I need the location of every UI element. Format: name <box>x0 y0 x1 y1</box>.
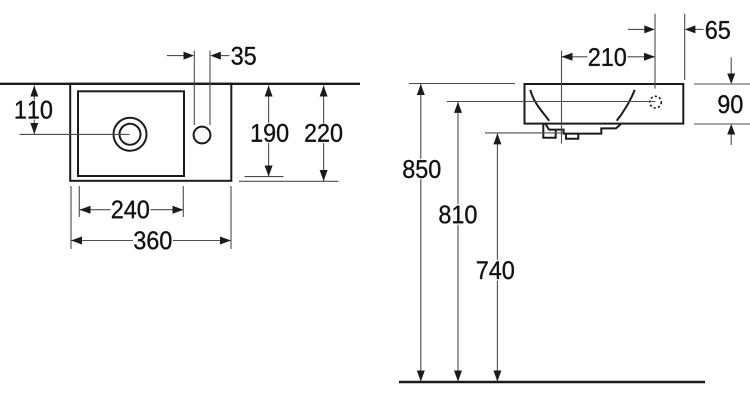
extension 210 right / 65 left <box>654 14 656 89</box>
floor line <box>399 381 705 384</box>
dim 220 shaft <box>323 86 325 182</box>
label 220 <box>304 123 343 143</box>
dim 810 shaft <box>457 102 459 382</box>
trap left block <box>543 124 555 138</box>
dim 110 arrow down <box>30 123 38 134</box>
dim 210 shaft <box>562 56 656 58</box>
dim 110 shaft <box>33 86 35 135</box>
label 35 <box>232 47 256 65</box>
tap hole hidden circle <box>650 96 662 108</box>
dim 240 shaft <box>80 209 184 211</box>
extension 850 <box>409 83 515 85</box>
tap hole circle <box>194 127 211 144</box>
dim 190 shaft <box>268 86 270 177</box>
label 810 <box>438 204 478 225</box>
drain inner circle <box>120 124 141 145</box>
basin body rect <box>525 84 684 124</box>
basin inner rect <box>78 91 184 176</box>
label 210 <box>588 48 628 67</box>
drain centerline <box>20 133 130 135</box>
dim 360 extensions <box>70 186 72 249</box>
label 240 <box>111 201 151 220</box>
label 110 <box>15 100 53 120</box>
trap profile <box>546 124 622 134</box>
dim 360 shaft <box>71 240 231 242</box>
drain outer circle <box>114 118 147 151</box>
extension 65 right <box>684 14 686 80</box>
bowl arc right <box>617 90 635 121</box>
dim 65 left arrow <box>628 28 645 30</box>
extension 90 top <box>694 83 750 85</box>
label 360 <box>133 231 173 250</box>
dim 190 extension <box>245 176 284 178</box>
dim 35 left arrow <box>167 55 185 57</box>
extension 810 <box>447 101 656 103</box>
dim 35 extension line left <box>193 51 195 126</box>
dim 65 right arrow <box>695 28 704 30</box>
dim 220 extension <box>239 180 339 182</box>
label 65 <box>706 21 730 39</box>
label 90 <box>718 95 742 113</box>
extension 210 left <box>561 51 563 144</box>
label 850 <box>402 159 442 180</box>
wall line <box>0 83 360 85</box>
extension 740 <box>485 132 564 134</box>
trap middle block <box>566 134 578 139</box>
washbasin outer rect <box>70 84 231 181</box>
bowl arc left <box>530 90 549 121</box>
dim 35 right arrow <box>219 55 230 57</box>
dim 850 shaft <box>420 84 422 382</box>
dim 240 extensions <box>78 186 80 217</box>
label 190 <box>250 123 289 143</box>
dim 90 top arrow <box>730 57 732 74</box>
dim 110 arrow up <box>30 86 38 97</box>
extension 90 bottom <box>694 123 750 125</box>
label 740 <box>476 260 516 281</box>
dim 90 bottom arrow <box>730 134 732 145</box>
dim 35 extension line right <box>209 51 211 126</box>
dim 740 shaft <box>496 133 498 381</box>
